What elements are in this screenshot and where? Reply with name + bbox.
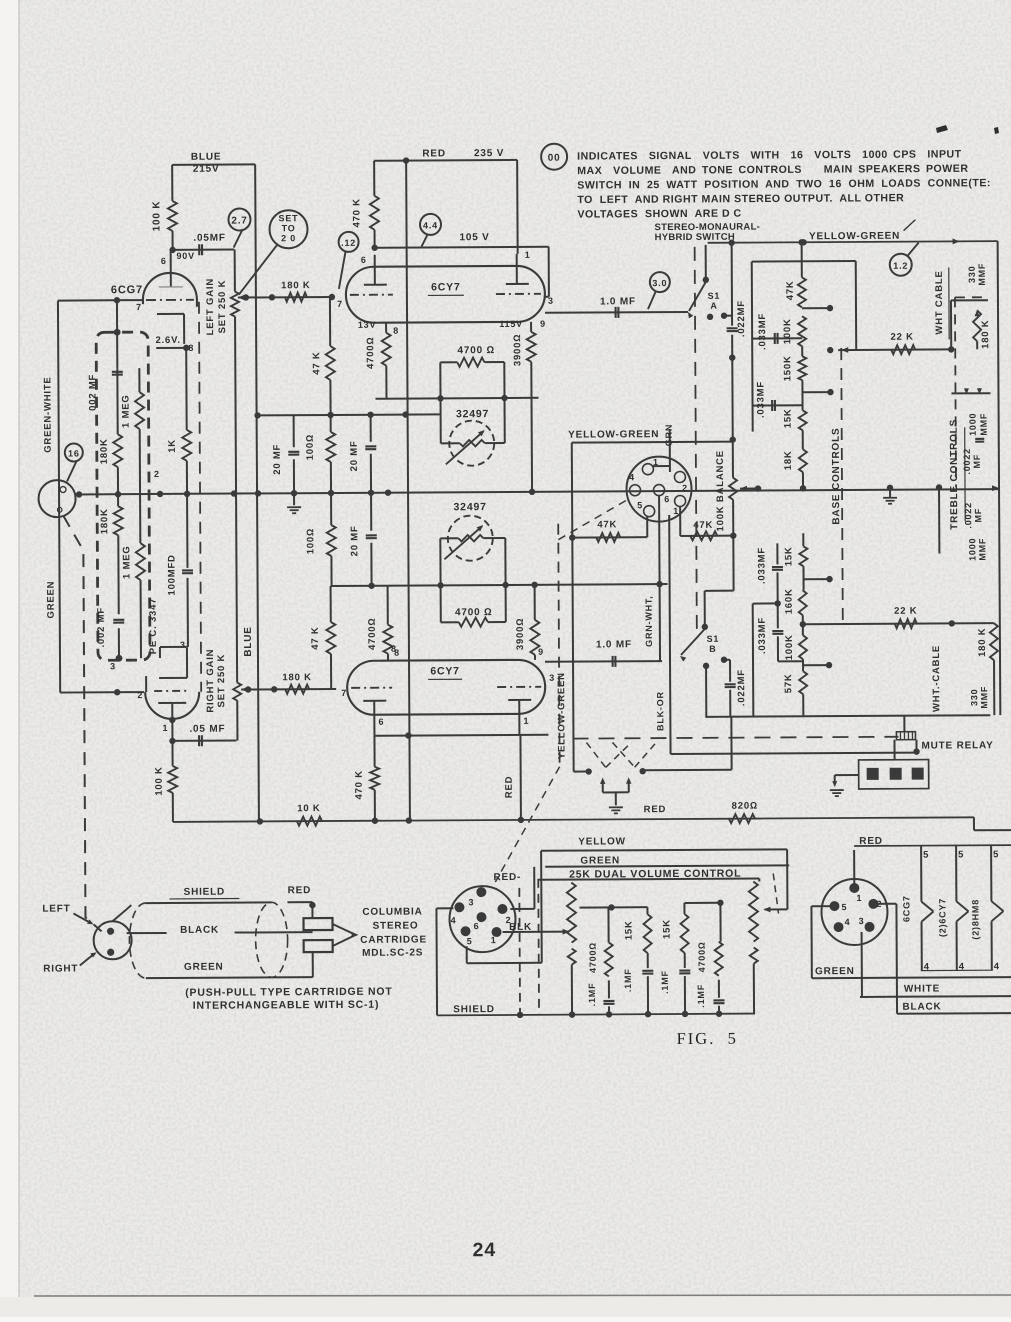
svg-text:TREBLE CONTROLS: TREBLE CONTROLS	[949, 419, 961, 530]
svg-text:RED: RED	[422, 148, 446, 159]
svg-text:MDL.SC-2S: MDL.SC-2S	[362, 947, 423, 958]
svg-text:COLUMBIA: COLUMBIA	[362, 906, 422, 917]
svg-text:13V: 13V	[358, 320, 376, 330]
svg-text:2: 2	[682, 483, 688, 493]
svg-text:(2)8HM8: (2)8HM8	[970, 899, 980, 940]
svg-text:WHITE: WHITE	[904, 984, 940, 995]
svg-text:WHT.-CABLE: WHT.-CABLE	[931, 645, 942, 712]
svg-text:.05MF: .05MF	[193, 233, 225, 244]
svg-text:002 MF: 002 MF	[87, 374, 98, 411]
svg-text:1.0 MF: 1.0 MF	[600, 296, 636, 307]
svg-text:20 MF: 20 MF	[349, 525, 360, 556]
svg-text:180K: 180K	[99, 508, 110, 534]
svg-text:MF: MF	[972, 454, 982, 469]
svg-text:20 MF: 20 MF	[272, 444, 283, 475]
svg-text:MMF: MMF	[979, 686, 989, 709]
svg-text:.0022: .0022	[963, 502, 973, 529]
svg-text:INDICATES SIGNAL VOLTS WITH: INDICATES SIGNAL VOLTS WITH 16 VOLTS 100…	[577, 148, 962, 162]
svg-text:4700 Ω: 4700 Ω	[457, 345, 495, 356]
svg-text:.022MF: .022MF	[736, 669, 747, 706]
svg-text:.033MF: .033MF	[755, 381, 766, 418]
svg-text:18K: 18K	[783, 450, 794, 470]
svg-text:B: B	[709, 644, 716, 654]
svg-text:.1MF: .1MF	[623, 968, 633, 992]
svg-text:4: 4	[994, 961, 1000, 972]
svg-text:7: 7	[136, 302, 142, 312]
svg-text:1.0 MF: 1.0 MF	[596, 639, 632, 650]
svg-text:15K: 15K	[624, 920, 635, 940]
svg-text:YELLOW-GREEN: YELLOW-GREEN	[568, 429, 659, 441]
svg-text:CARTRIDGE: CARTRIDGE	[360, 934, 427, 945]
svg-text:180 K: 180 K	[977, 628, 988, 657]
svg-text:32497: 32497	[456, 408, 489, 420]
svg-text:47 K: 47 K	[310, 626, 321, 649]
svg-text:YELLOW: YELLOW	[578, 836, 626, 847]
svg-text:BLK-OR: BLK-OR	[655, 691, 665, 731]
svg-text:00: 00	[548, 153, 561, 164]
svg-text:3: 3	[549, 673, 555, 683]
svg-text:FIG. 5: FIG. 5	[677, 1029, 738, 1048]
svg-text:180 K: 180 K	[282, 672, 311, 683]
svg-text:100Ω: 100Ω	[305, 434, 316, 460]
svg-text:.0022: .0022	[962, 448, 972, 475]
svg-text:5: 5	[467, 936, 473, 946]
svg-text:115V: 115V	[499, 319, 523, 329]
svg-text:RIGHT: RIGHT	[43, 963, 78, 974]
svg-text:47K: 47K	[597, 519, 617, 530]
svg-text:.1MF: .1MF	[696, 984, 706, 1008]
svg-text:180 K: 180 K	[281, 280, 310, 291]
svg-text:6: 6	[474, 921, 480, 931]
svg-text:SET: SET	[278, 213, 298, 223]
svg-text:100K: 100K	[782, 318, 793, 344]
svg-text:GREEN: GREEN	[580, 855, 620, 866]
svg-text:100 K: 100 K	[151, 201, 162, 232]
svg-text:HYBRID SWITCH: HYBRID SWITCH	[655, 232, 735, 243]
svg-text:O: O	[57, 506, 64, 515]
svg-text:3900Ω: 3900Ω	[515, 618, 526, 651]
svg-text:BLACK: BLACK	[902, 1001, 941, 1012]
svg-text:180 K: 180 K	[980, 320, 991, 349]
svg-text:.002 MF: .002 MF	[96, 607, 107, 648]
svg-text:3: 3	[548, 296, 554, 306]
svg-text:2.6V.: 2.6V.	[155, 335, 180, 346]
svg-text:160K: 160K	[784, 588, 795, 614]
svg-text:8: 8	[391, 644, 397, 654]
svg-text:5: 5	[958, 849, 964, 860]
svg-text:.1MF: .1MF	[660, 970, 670, 994]
svg-text:SET 250 K: SET 250 K	[216, 654, 227, 708]
svg-text:5: 5	[993, 849, 999, 860]
svg-text:470 K: 470 K	[354, 770, 365, 799]
svg-text:6CG7: 6CG7	[111, 284, 143, 296]
svg-text:90V: 90V	[176, 251, 194, 261]
svg-text:1: 1	[491, 935, 497, 945]
svg-text:6: 6	[161, 256, 167, 266]
svg-text:15K: 15K	[662, 919, 673, 939]
svg-text:MUTE RELAY: MUTE RELAY	[921, 740, 993, 751]
svg-text:1 MEG: 1 MEG	[120, 394, 131, 428]
svg-text:3.0: 3.0	[652, 278, 667, 288]
svg-text:6CY7: 6CY7	[431, 281, 461, 293]
svg-text:105 V: 105 V	[459, 232, 489, 243]
svg-text:MAX VOLUME AND TONE CONTROLS: MAX VOLUME AND TONE CONTROLS MAIN SPEAKE…	[577, 163, 968, 177]
svg-text:MMF: MMF	[977, 538, 987, 561]
svg-text:6CG7: 6CG7	[901, 895, 911, 922]
svg-text:GREEN-WHITE: GREEN-WHITE	[42, 376, 53, 452]
svg-text:10 K: 10 K	[297, 803, 320, 814]
svg-text:3900Ω: 3900Ω	[512, 334, 523, 367]
svg-text:GREEN: GREEN	[815, 966, 855, 977]
svg-text:(2)6CY7: (2)6CY7	[937, 898, 947, 937]
svg-text:INTERCHANGEABLE WITH SC-1): INTERCHANGEABLE WITH SC-1)	[193, 999, 380, 1012]
svg-text:3: 3	[110, 661, 116, 671]
svg-text:3: 3	[468, 897, 474, 907]
svg-text:24: 24	[472, 1239, 496, 1261]
svg-text:4700Ω: 4700Ω	[697, 941, 707, 972]
svg-text:BLUE: BLUE	[191, 152, 221, 163]
svg-text:RED-: RED-	[493, 872, 521, 883]
svg-text:2: 2	[154, 469, 160, 479]
svg-text:235 V: 235 V	[474, 148, 504, 159]
svg-text:4.4: 4.4	[423, 220, 438, 230]
svg-text:2: 2	[137, 690, 143, 700]
svg-text:3: 3	[180, 640, 186, 650]
svg-text:100Ω: 100Ω	[305, 528, 316, 554]
svg-text:820Ω: 820Ω	[732, 801, 758, 812]
svg-text:TO LEFT AND RIGHT MAIN STERE: TO LEFT AND RIGHT MAIN STEREO OUTPUT. AL…	[577, 192, 904, 206]
svg-text:47K: 47K	[785, 280, 796, 300]
svg-text:YELLOW-GREEN: YELLOW-GREEN	[556, 672, 568, 759]
svg-text:RED: RED	[644, 804, 667, 815]
svg-text:SET 250 K: SET 250 K	[217, 280, 228, 334]
svg-text:LEFT: LEFT	[42, 904, 70, 915]
svg-text:S1: S1	[707, 634, 720, 644]
svg-text:22 K: 22 K	[890, 332, 913, 343]
svg-text:6CY7: 6CY7	[430, 665, 460, 677]
svg-text:BLACK: BLACK	[180, 925, 219, 936]
svg-text:WHT CABLE: WHT CABLE	[934, 270, 945, 334]
svg-text:1000: 1000	[968, 413, 978, 436]
svg-text:VOLTAGES SHOWN ARE D C: VOLTAGES SHOWN ARE D C	[577, 208, 741, 221]
svg-text:47K: 47K	[693, 520, 713, 531]
svg-text:RIGHT GAIN: RIGHT GAIN	[205, 649, 216, 713]
svg-text:YELLOW-GREEN: YELLOW-GREEN	[809, 231, 900, 243]
svg-text:.12: .12	[341, 238, 356, 248]
svg-text:330: 330	[969, 689, 979, 706]
svg-text:22 K: 22 K	[894, 606, 917, 617]
svg-text:2 0: 2 0	[281, 233, 296, 243]
svg-text:150K: 150K	[782, 355, 793, 381]
svg-text:100K: 100K	[784, 634, 795, 660]
svg-text:STEREO: STEREO	[373, 921, 419, 932]
svg-text:5: 5	[923, 850, 929, 861]
svg-text:15K: 15K	[783, 408, 794, 428]
svg-text:(PUSH-PULL TYPE CARTRIDGE NOT: (PUSH-PULL TYPE CARTRIDGE NOT	[185, 986, 392, 999]
svg-text:.022MF: .022MF	[736, 300, 747, 337]
svg-text:57K: 57K	[783, 673, 794, 693]
svg-text:1: 1	[525, 250, 531, 260]
svg-text:2.7: 2.7	[231, 215, 247, 226]
svg-text:16: 16	[68, 448, 80, 458]
svg-text:RED: RED	[504, 776, 515, 799]
svg-text:4: 4	[845, 917, 851, 927]
svg-text:4: 4	[629, 472, 635, 482]
svg-text:4700Ω: 4700Ω	[588, 942, 598, 973]
svg-text:4700Ω: 4700Ω	[365, 337, 376, 370]
svg-text:3: 3	[859, 916, 865, 926]
svg-text:.05 MF: .05 MF	[189, 724, 225, 735]
svg-text:GREEN: GREEN	[184, 962, 224, 973]
svg-text:1: 1	[673, 506, 679, 516]
svg-text:1000: 1000	[967, 538, 977, 561]
svg-text:470 K: 470 K	[351, 198, 362, 227]
svg-text:1: 1	[856, 893, 862, 903]
svg-text:5: 5	[842, 902, 848, 912]
svg-text:5: 5	[637, 500, 643, 510]
svg-text:.1MF: .1MF	[587, 983, 597, 1007]
svg-text:20 MF: 20 MF	[349, 440, 360, 471]
svg-text:LEFT GAIN: LEFT GAIN	[205, 278, 216, 335]
svg-text:100MFD: 100MFD	[166, 554, 177, 595]
svg-text:47 K: 47 K	[311, 351, 322, 374]
svg-text:MMF: MMF	[979, 413, 989, 436]
svg-text:100 K: 100 K	[154, 766, 165, 795]
svg-text:BLUE: BLUE	[243, 626, 254, 656]
svg-text:32497: 32497	[453, 501, 486, 513]
svg-text:4700 Ω: 4700 Ω	[455, 607, 493, 618]
svg-text:9: 9	[540, 319, 546, 329]
svg-text:.033MF: .033MF	[757, 617, 768, 654]
svg-text:180K: 180K	[99, 438, 110, 464]
svg-text:A: A	[710, 301, 717, 311]
svg-text:7: 7	[337, 299, 343, 309]
svg-text:GRN-WHT,: GRN-WHT,	[644, 595, 654, 646]
svg-text:6: 6	[361, 255, 367, 265]
svg-text:1K: 1K	[167, 439, 178, 453]
svg-text:S1: S1	[708, 291, 721, 301]
svg-text:.033MF: .033MF	[757, 313, 768, 350]
svg-text:GRN: GRN	[664, 424, 674, 446]
svg-text:4: 4	[451, 915, 457, 925]
svg-text:15K: 15K	[783, 546, 794, 566]
svg-text:SHIELD: SHIELD	[453, 1004, 495, 1015]
svg-text:GREEN: GREEN	[46, 581, 57, 619]
svg-text:100K BALANCE: 100K BALANCE	[715, 450, 726, 531]
svg-text:6: 6	[664, 494, 670, 504]
svg-text:1 MEG: 1 MEG	[121, 545, 132, 579]
svg-text:MF: MF	[973, 508, 983, 523]
svg-text:TO: TO	[282, 223, 296, 233]
svg-text:6: 6	[378, 717, 384, 727]
svg-text:1.2: 1.2	[893, 261, 908, 271]
svg-text:SHIELD: SHIELD	[184, 887, 226, 898]
svg-text:8: 8	[188, 343, 194, 353]
svg-text:MMF: MMF	[977, 263, 987, 286]
svg-text:.033MF: .033MF	[756, 547, 767, 584]
svg-text:8: 8	[393, 326, 399, 336]
svg-text:PE C. 3347: PE C. 3347	[148, 598, 159, 655]
svg-text:1: 1	[162, 723, 168, 733]
svg-text:9: 9	[538, 647, 544, 657]
svg-text:SWITCH IN 25 WATT POSITION AND: SWITCH IN 25 WATT POSITION AND TWO 16 OH…	[577, 177, 991, 191]
svg-text:BASE CONTROLS: BASE CONTROLS	[831, 428, 843, 525]
svg-text:RED: RED	[288, 885, 312, 896]
svg-text:4700Ω: 4700Ω	[367, 618, 378, 651]
svg-text:1: 1	[523, 716, 529, 726]
svg-text:330: 330	[967, 266, 977, 283]
